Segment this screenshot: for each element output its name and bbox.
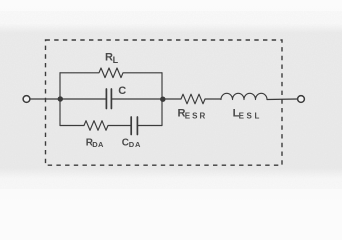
svg-text:DA: DA — [129, 140, 141, 149]
svg-text:DA: DA — [92, 140, 104, 149]
svg-text:L: L — [113, 55, 119, 65]
svg-text:ESR: ESR — [185, 112, 207, 121]
svg-text:C: C — [118, 85, 126, 97]
svg-text:ESL: ESL — [239, 112, 262, 121]
